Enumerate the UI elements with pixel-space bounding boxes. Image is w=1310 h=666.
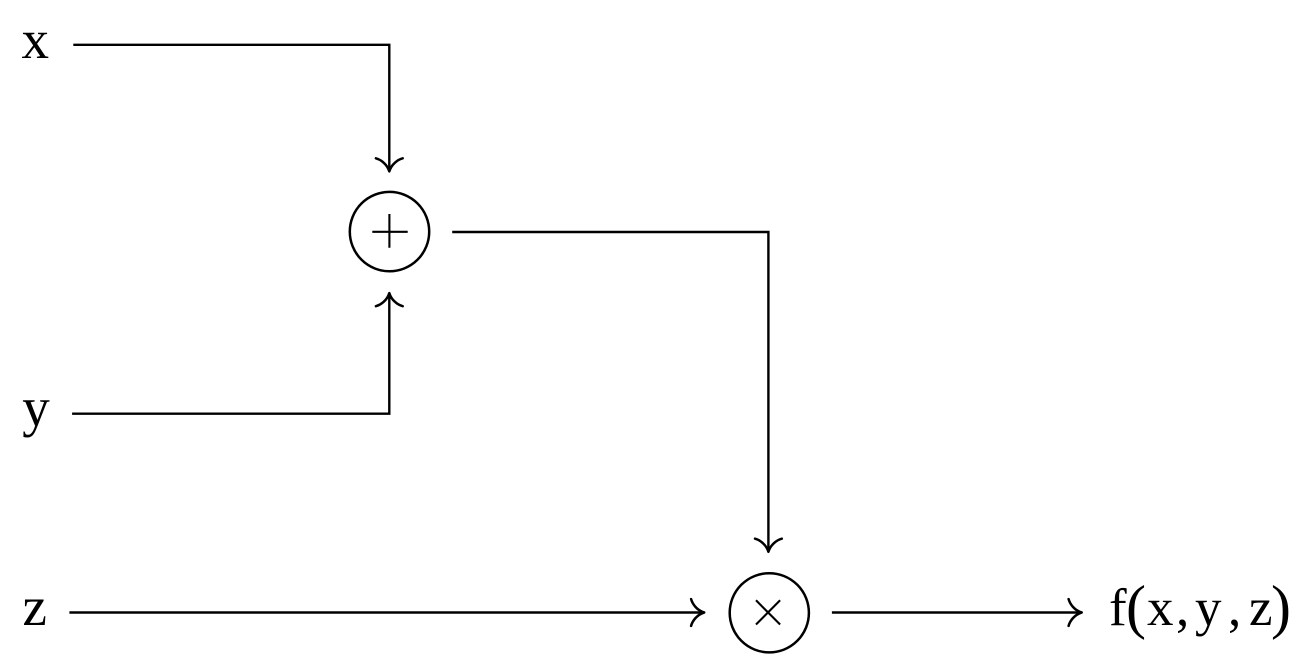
arrowhead into times from left: [691, 599, 704, 626]
svg-text:y: y: [22, 377, 50, 438]
svg-text:x: x: [1147, 579, 1174, 637]
svg-text:z: z: [1249, 579, 1273, 637]
svg-text:(: (: [1126, 574, 1146, 640]
svg-text:,: ,: [1176, 579, 1189, 637]
arrowhead into plus from bottom: [376, 293, 403, 306]
svg-text:f: f: [1109, 579, 1127, 637]
op-amp summing node circle (plus): [350, 192, 429, 271]
svg-text:x: x: [21, 9, 49, 70]
multiplier node circle (times): [730, 573, 809, 652]
svg-text:): ): [1271, 574, 1291, 640]
svg-text:z: z: [22, 576, 46, 637]
arrowhead into plus from top: [376, 158, 403, 171]
wire plus to times: [452, 232, 768, 551]
times symbol: [756, 600, 780, 624]
plus symbol: [372, 214, 407, 248]
wire y to plus: [72, 294, 389, 414]
svg-text:,: ,: [1228, 579, 1241, 637]
arrowhead into times from top: [755, 539, 782, 552]
node f(x, y, z) output label: [1109, 574, 1291, 640]
svg-text:y: y: [1195, 579, 1222, 637]
wire z to times: [69, 611, 703, 613]
wire times to output: [832, 611, 1081, 613]
wire x to plus: [73, 45, 389, 171]
arrowhead output: [1069, 599, 1082, 626]
